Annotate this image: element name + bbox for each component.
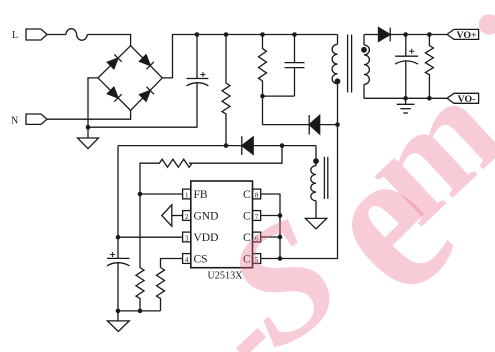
capacitor C2 (snubber) bbox=[285, 35, 305, 97]
pin label FB bbox=[194, 189, 208, 201]
ground arrow (GND pin) bbox=[162, 205, 183, 226]
wire L to fuse bbox=[47, 34, 66, 36]
wire pin 5 to drain bbox=[261, 125, 338, 259]
node dot aux line bbox=[280, 143, 285, 148]
pin 8 box bbox=[253, 189, 261, 199]
connector L bbox=[26, 29, 47, 40]
pin 3 box bbox=[183, 232, 191, 242]
svg-text:2: 2 bbox=[185, 213, 189, 221]
capacitor C3 (output electrolytic) bbox=[395, 35, 418, 99]
wire FB pin bbox=[140, 193, 183, 195]
wire ground rail to input cap bbox=[88, 83, 197, 128]
pin label CS bbox=[194, 253, 208, 265]
svg-text:VO+: VO+ bbox=[456, 30, 476, 41]
pin 7 box bbox=[253, 211, 261, 221]
node dot FB bbox=[138, 192, 143, 197]
node dot out cap bottom bbox=[403, 96, 408, 101]
wire snubber bottom bbox=[263, 95, 295, 97]
wire left VDD rail bbox=[117, 146, 119, 259]
resistor R6 (CS sense) bbox=[157, 268, 165, 311]
op-amp U1 IC body U2513X bbox=[191, 181, 253, 268]
node dot rail/cap bottom bbox=[116, 309, 121, 314]
ground (IC) bbox=[107, 311, 129, 332]
node dot drain/primary bbox=[335, 122, 340, 127]
svg-text:L: L bbox=[12, 30, 18, 41]
bridge diode D3 (bottom-left) bbox=[107, 87, 121, 101]
wire pin 6 to bus bbox=[261, 236, 280, 238]
resistor R5 (FB lower) bbox=[136, 194, 144, 311]
part number U2513X bbox=[207, 271, 243, 282]
node junction dot (88,127) bbox=[86, 125, 91, 130]
svg-text:N: N bbox=[11, 116, 18, 127]
node dot rail/snubberR bbox=[260, 32, 265, 37]
node L label bbox=[12, 30, 18, 41]
transformer T1 secondary winding bbox=[361, 35, 369, 99]
node dot rail/snubberC bbox=[292, 32, 297, 37]
connector VO+ bbox=[447, 29, 479, 41]
wire bottom ground rail bbox=[118, 310, 161, 312]
node dot snubber bottom bbox=[260, 94, 265, 99]
svg-text:FB: FB bbox=[194, 189, 208, 201]
pin label C6 bbox=[243, 232, 251, 244]
svg-text:4: 4 bbox=[185, 256, 189, 264]
node dot rail/startup bbox=[224, 32, 229, 37]
wire aux node to FB resistor bbox=[189, 146, 282, 164]
wire pin 8 to bus bbox=[261, 194, 280, 259]
transformer T1 aux winding bbox=[311, 146, 319, 219]
wire snubber to clamp diode bbox=[263, 96, 310, 125]
ground (bridge) bbox=[78, 138, 99, 149]
node dot VDD bbox=[116, 235, 121, 240]
ground (aux) bbox=[305, 218, 326, 229]
wire secondary top to diode bbox=[364, 34, 379, 36]
wire CS pin to resistor R6 bbox=[161, 259, 183, 268]
node N label bbox=[11, 116, 18, 127]
diode D6 (output rectifier) bbox=[379, 28, 448, 42]
pin label C5 bbox=[243, 253, 251, 265]
ground (output earth) bbox=[397, 98, 415, 113]
node dot startup bottom bbox=[224, 143, 229, 148]
wire bridge right corner to top rail bbox=[162, 35, 337, 78]
bridge diode D1 (top-left) bbox=[107, 54, 121, 68]
bridge rectifier diamond bbox=[98, 46, 162, 111]
node dot out res top bbox=[427, 32, 432, 37]
node dot bus pin7 bbox=[278, 213, 283, 218]
watermark bbox=[196, 14, 495, 352]
resistor R3 (output load) bbox=[425, 35, 433, 99]
wire output bottom rail bbox=[364, 97, 447, 99]
capacitor C1 (bulk electrolytic) bbox=[187, 35, 209, 86]
connector VO- bbox=[447, 93, 479, 105]
node dot rail/cap bbox=[195, 32, 200, 37]
pin label C7 bbox=[243, 210, 251, 222]
pin label GND bbox=[194, 210, 219, 222]
node dot bus pin6 bbox=[278, 235, 283, 240]
pin label VDD bbox=[194, 232, 219, 244]
wire VDD supply line bbox=[118, 145, 242, 147]
node dot rail/R5 bottom bbox=[138, 309, 143, 314]
capacitor C4 (VDD electrolytic) bbox=[107, 252, 130, 311]
wire pin 7 to bus bbox=[261, 215, 280, 217]
svg-text:3: 3 bbox=[185, 234, 189, 242]
node dot bus pin5 bbox=[278, 256, 283, 261]
pin label C8 bbox=[243, 189, 251, 201]
node dot out res bottom bbox=[427, 96, 432, 101]
bridge diode D4 (bottom-right) bbox=[140, 87, 154, 101]
svg-text:CS: CS bbox=[194, 253, 208, 265]
pin 4 box bbox=[183, 254, 191, 264]
resistor R4 (FB upper, horizontal) bbox=[140, 159, 192, 194]
diode D5 (clamp) bbox=[309, 115, 337, 135]
pin 2 box bbox=[183, 211, 191, 221]
pin 6 box bbox=[253, 232, 261, 242]
wire VDD pin bbox=[118, 236, 183, 238]
resistor R1 (startup) bbox=[222, 35, 230, 146]
pin 1 box bbox=[183, 189, 191, 199]
svg-text:1: 1 bbox=[185, 191, 189, 199]
resistor R2 (snubber) bbox=[259, 35, 267, 97]
wire N to bridge bottom bbox=[47, 110, 131, 119]
fuse F1 bbox=[66, 29, 87, 41]
diode D7 (aux rectifier) bbox=[242, 136, 316, 155]
connector N bbox=[26, 114, 47, 124]
transformer T1 primary winding bbox=[332, 35, 340, 125]
bridge diode D2 (top-right) bbox=[140, 55, 154, 69]
pin 5 box bbox=[253, 254, 261, 264]
transformer aux core bbox=[324, 157, 327, 199]
wire bridge left corner to ground bbox=[88, 78, 98, 138]
node dot out cap top bbox=[403, 32, 408, 37]
wire fuse to bridge top bbox=[87, 35, 130, 46]
transformer T1 core bbox=[348, 35, 352, 93]
